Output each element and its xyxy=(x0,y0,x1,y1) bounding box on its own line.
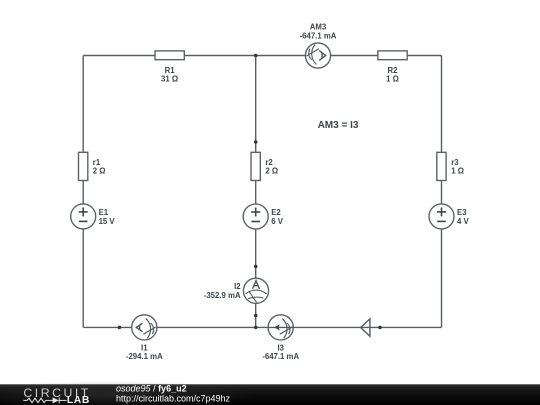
svg-text:-294.1 mA: -294.1 mA xyxy=(126,352,163,361)
svg-text:6 V: 6 V xyxy=(271,217,284,226)
svg-text:R1: R1 xyxy=(165,66,176,75)
resistor r1 xyxy=(79,152,106,180)
resistor R1 xyxy=(155,51,184,84)
resistor R2 xyxy=(378,51,407,84)
svg-text:31 Ω: 31 Ω xyxy=(161,75,178,84)
svg-text:2 Ω: 2 Ω xyxy=(93,167,106,176)
svg-text:-647.1 mA: -647.1 mA xyxy=(300,31,337,40)
svg-text:E3: E3 xyxy=(457,208,467,217)
svg-text:R2: R2 xyxy=(388,66,399,75)
voltage source E1 xyxy=(71,204,116,229)
current arrow annotation xyxy=(361,319,370,336)
svg-text:E1: E1 xyxy=(99,208,109,217)
svg-text:osode95 / fy6_u2: osode95 / fy6_u2 xyxy=(116,383,187,393)
voltage source E2 xyxy=(243,204,284,229)
svg-text:-647.1 mA: -647.1 mA xyxy=(262,352,299,361)
svg-text:1 Ω: 1 Ω xyxy=(386,75,399,84)
resistor r3 xyxy=(437,152,464,180)
svg-text:-352.9 mA: -352.9 mA xyxy=(204,291,241,300)
resistor r2 xyxy=(251,152,278,180)
wire left vertical xyxy=(82,56,84,328)
svg-text:LAB: LAB xyxy=(67,395,90,405)
node junction bottom middle xyxy=(254,326,258,330)
footer bar xyxy=(0,384,540,405)
node junction below I2 xyxy=(254,314,258,318)
svg-text:2 Ω: 2 Ω xyxy=(265,167,278,176)
svg-text:I1: I1 xyxy=(141,343,148,352)
ammeter I2 xyxy=(204,278,269,303)
svg-text:http://circuitlab.com/c7p49hz: http://circuitlab.com/c7p49hz xyxy=(116,393,231,403)
node junction left of I1 xyxy=(118,326,122,330)
svg-text:r1: r1 xyxy=(93,158,101,167)
svg-text:15 V: 15 V xyxy=(99,217,116,226)
svg-text:AM3: AM3 xyxy=(310,23,327,32)
svg-text:I3: I3 xyxy=(277,343,284,352)
ammeter AM3 xyxy=(300,23,337,69)
wire top horizontal xyxy=(83,55,441,57)
svg-text:r2: r2 xyxy=(265,158,273,167)
wire bottom horizontal xyxy=(83,326,441,328)
node junction top middle xyxy=(254,54,258,58)
logo resistor zigzag and diode xyxy=(23,397,66,403)
node junction above I2 xyxy=(254,265,258,269)
wire middle vertical xyxy=(255,56,257,328)
svg-text:E2: E2 xyxy=(271,208,281,217)
voltage source E3 xyxy=(429,204,470,229)
svg-text:1 Ω: 1 Ω xyxy=(451,167,464,176)
node junction middle wire xyxy=(254,140,258,144)
svg-text:4 V: 4 V xyxy=(457,217,470,226)
wire right vertical xyxy=(441,56,443,328)
node junction right of arrow xyxy=(378,326,382,330)
svg-text:I2: I2 xyxy=(234,282,241,291)
ammeter I1 xyxy=(126,315,163,361)
svg-text:r3: r3 xyxy=(451,158,459,167)
svg-text:AM3 = I3: AM3 = I3 xyxy=(318,120,359,131)
ammeter I3 xyxy=(262,315,299,361)
